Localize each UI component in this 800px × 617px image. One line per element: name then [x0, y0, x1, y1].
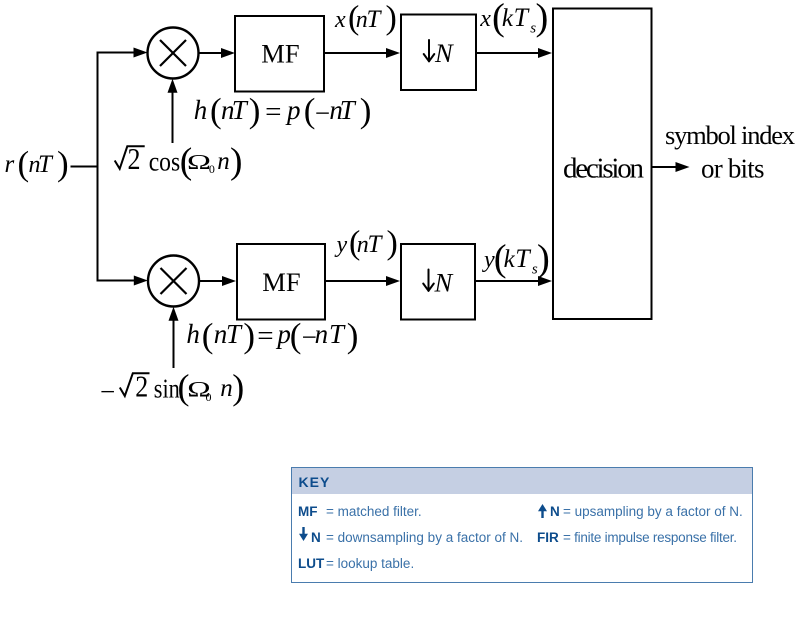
svg-text:−: −	[315, 98, 330, 128]
svg-text:r: r	[5, 151, 15, 178]
svg-text:n: n	[315, 319, 329, 349]
svg-text:T: T	[367, 6, 383, 33]
svg-text:T: T	[340, 95, 357, 125]
svg-text:(: (	[18, 144, 30, 183]
svg-text:T: T	[38, 151, 54, 178]
svg-text:−: −	[100, 377, 115, 407]
svg-text:n: n	[217, 148, 230, 175]
svg-text:): )	[386, 0, 397, 37]
svg-text:p: p	[285, 95, 301, 125]
svg-text:2: 2	[135, 369, 148, 404]
svg-text:T: T	[232, 95, 249, 125]
svg-text:symbol index: symbol index	[665, 120, 795, 150]
svg-text:): )	[360, 91, 372, 130]
svg-text:): )	[57, 144, 69, 183]
svg-text:): )	[232, 367, 244, 407]
svg-text:(: (	[202, 316, 214, 355]
svg-text:T: T	[514, 3, 530, 32]
svg-text:cos: cos	[149, 147, 181, 177]
svg-text:N: N	[434, 268, 454, 298]
svg-text:(: (	[290, 316, 302, 355]
svg-text:T: T	[368, 231, 384, 258]
svg-text:p: p	[275, 319, 291, 349]
svg-text:0: 0	[209, 162, 215, 176]
svg-text:y: y	[335, 232, 348, 258]
svg-text:MF: MF	[261, 39, 299, 69]
svg-text:0: 0	[206, 390, 212, 404]
svg-text:=: =	[257, 320, 273, 352]
svg-text:T: T	[515, 244, 531, 273]
svg-text:2: 2	[128, 141, 141, 176]
svg-text:): )	[387, 225, 398, 262]
svg-text:decision: decision	[563, 153, 645, 185]
svg-text:): )	[536, 0, 549, 39]
svg-text:h: h	[186, 319, 200, 349]
svg-text:): )	[537, 238, 550, 280]
svg-text:): )	[230, 141, 243, 182]
svg-text:x: x	[334, 7, 346, 33]
svg-text:(: (	[304, 91, 316, 130]
svg-text:sin: sin	[154, 374, 180, 404]
svg-text:T: T	[226, 319, 243, 349]
svg-text:T: T	[329, 319, 346, 349]
svg-text:): )	[243, 316, 255, 355]
svg-text:): )	[347, 316, 359, 355]
svg-text:): )	[249, 91, 261, 130]
svg-text:(: (	[210, 91, 222, 130]
svg-text:n: n	[220, 375, 233, 402]
svg-text:k: k	[504, 246, 516, 273]
svg-text:x: x	[479, 6, 491, 32]
svg-text:k: k	[502, 5, 514, 32]
svg-text:=: =	[265, 96, 281, 128]
svg-text:MF: MF	[262, 267, 300, 297]
svg-text:h: h	[194, 95, 208, 125]
svg-text:Ω: Ω	[187, 150, 211, 174]
svg-text:N: N	[434, 38, 454, 68]
svg-text:or bits: or bits	[701, 153, 765, 183]
